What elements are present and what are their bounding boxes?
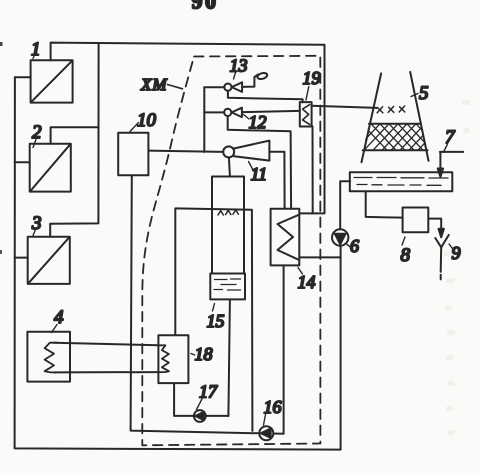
wire left bus, bottom edge and right return through pump 6	[15, 77, 341, 449]
wire heater 19 to cooling tower spray	[312, 106, 377, 108]
box 1 consumer	[31, 60, 73, 102]
wire pump 6 suction to basin	[340, 181, 350, 229]
wire box 10 to ejector 11	[149, 151, 224, 152]
wire condenser 14 to pump 6 line	[300, 256, 341, 258]
wire box 3 left stub	[15, 257, 28, 259]
leader label 4	[52, 325, 58, 333]
wire bus to valve 12	[204, 111, 224, 113]
leader label 13	[234, 73, 236, 80]
wire box 10 drop to pump 16 line and riser to condenser 14	[131, 175, 284, 433]
svg-text:14: 14	[298, 272, 316, 292]
svg-text:1: 1	[31, 39, 41, 60]
wire ejector 11 suction from tank 15	[229, 158, 230, 176]
leader label 16	[264, 415, 266, 426]
svg-text:90: 90	[192, 0, 219, 14]
vent balloon of valve 13	[257, 72, 268, 80]
svg-text:8: 8	[401, 245, 411, 266]
svg-text:3: 3	[31, 213, 42, 234]
pump 16	[259, 426, 273, 440]
svg-text:19: 19	[303, 68, 321, 88]
cooling tower 5 left wall	[362, 74, 382, 163]
svg-text:6: 6	[350, 236, 359, 256]
wire ejector 11 outlet to condenser 14	[269, 152, 284, 209]
wire spray duct left leg into cooler 18	[175, 208, 252, 431]
basin water level dashes	[354, 178, 448, 186]
ejector 11 diffuser cone	[234, 141, 270, 161]
heater 19	[300, 102, 312, 126]
valve 13	[224, 82, 242, 92]
drain symbol 9	[435, 235, 449, 280]
wire valve 12 drop to condenser 14	[228, 116, 291, 209]
makeup water drop with arrow	[439, 152, 441, 170]
leader label 9	[449, 244, 453, 249]
wire box 1 left stub	[15, 76, 31, 78]
tank 15 water dashes	[214, 279, 241, 290]
svg-text:10: 10	[137, 110, 157, 131]
svg-text:12: 12	[249, 112, 267, 132]
leader label 2	[33, 140, 36, 148]
tower packing top edge	[369, 123, 421, 125]
ink speck left margin top	[0, 42, 3, 46]
leader label 7	[444, 144, 448, 152]
svg-text:5: 5	[419, 83, 429, 104]
leader label 8	[402, 237, 405, 245]
wire valve 13 drop to heater 19	[228, 91, 303, 103]
box 10 generator	[118, 133, 148, 175]
pipe box 4 to cooler 18 upper	[54, 343, 158, 346]
filter box 8	[403, 208, 429, 233]
box 2 consumer	[30, 144, 71, 192]
pump 17	[194, 410, 206, 422]
tower packing crosshatch	[355, 124, 443, 150]
leader label 17	[197, 399, 203, 410]
svg-text:ХМ: ХМ	[140, 75, 168, 94]
valve 12	[224, 108, 242, 117]
wire XM valve bus	[203, 87, 205, 152]
faint ghost print on right margin	[444, 100, 470, 435]
svg-text:9: 9	[452, 243, 461, 263]
makeup water line 7	[440, 151, 463, 153]
wire tank 15 drop to pump 17	[228, 300, 230, 416]
leader label 19	[306, 87, 309, 101]
leader label 15	[213, 304, 215, 312]
wire cooler 18 bottom to pump 17	[174, 383, 194, 416]
leader label 3	[33, 230, 36, 236]
tank 15 water reservoir	[210, 274, 245, 300]
wire valve 12 outlet to heater 19	[242, 111, 300, 112]
wire filter 8 outlet with arrow	[428, 219, 441, 230]
tower packing bottom edge	[363, 149, 428, 151]
XM machine dashed boundary	[142, 56, 320, 446]
svg-text:18: 18	[195, 344, 213, 364]
tank 15 spray nozzles	[218, 210, 238, 215]
ejector 11 nozzle circle	[223, 146, 234, 157]
wire bus from top edge down to box 3	[50, 44, 98, 237]
ink speck left margin middle	[0, 250, 2, 254]
leader label 6	[347, 245, 351, 248]
wire pump 17 right connection	[206, 415, 229, 417]
leader label 1	[33, 49, 37, 59]
pipe box 4 to cooler 18 lower	[54, 371, 158, 373]
wire main top edge and right edge into condenser 14	[51, 43, 325, 214]
leader label 12	[244, 115, 250, 120]
wire heater 19 drop to condenser 14	[312, 126, 314, 213]
svg-text:4: 4	[54, 307, 64, 328]
svg-text:2: 2	[32, 122, 42, 143]
wire box 2 top connection	[51, 127, 99, 144]
svg-text:13: 13	[230, 56, 248, 76]
leader label 18	[191, 354, 195, 356]
tower spray nozzles	[377, 106, 405, 113]
pump 6	[332, 229, 348, 245]
cooler 18	[158, 335, 188, 383]
cooling tower 5 right wall	[410, 72, 428, 161]
svg-text:11: 11	[251, 164, 268, 184]
heat exchanger box 4	[27, 332, 70, 382]
tank 15 evaporator duct walls	[212, 177, 244, 274]
condenser 14	[271, 209, 300, 266]
leader label XM	[168, 85, 183, 89]
leader label 14	[298, 268, 303, 275]
wire valve 13 outlet to vent	[242, 74, 258, 87]
leader label 11	[249, 162, 254, 172]
box 3 consumer	[28, 237, 70, 284]
svg-text:15: 15	[207, 311, 225, 331]
leader label 5	[411, 94, 418, 97]
wire box 2 left stub	[15, 161, 30, 163]
svg-text:16: 16	[264, 397, 282, 417]
wire basin to filter 8	[366, 191, 403, 217]
tower basin	[350, 172, 453, 191]
wire bus to valve 13	[204, 86, 224, 88]
leader label 10	[130, 123, 139, 132]
